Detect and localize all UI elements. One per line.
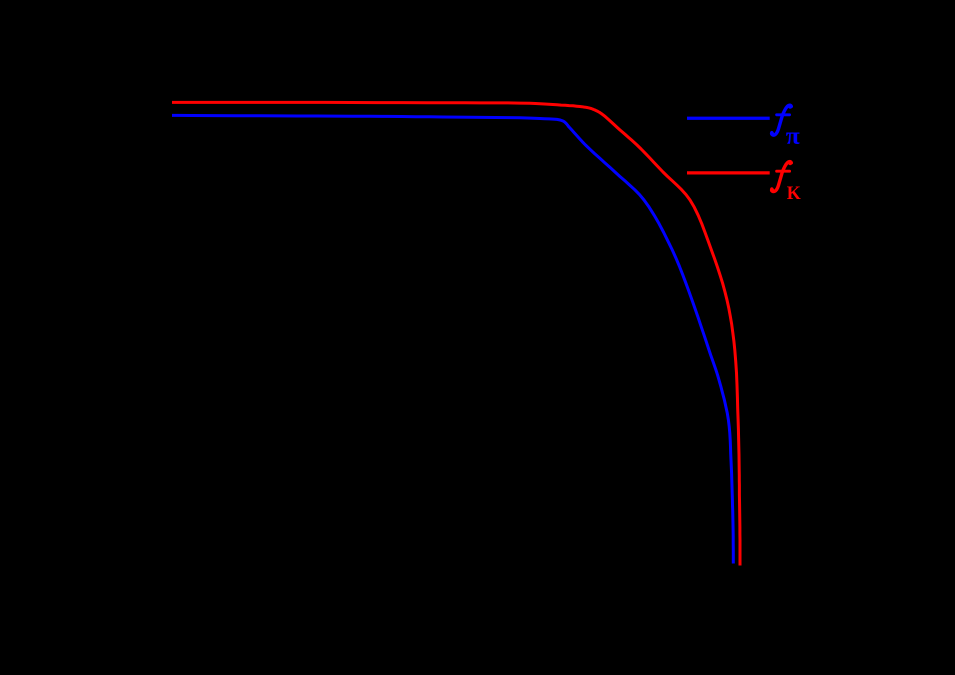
svg-text:π: π	[786, 121, 800, 150]
svg-text:K: K	[787, 183, 802, 205]
